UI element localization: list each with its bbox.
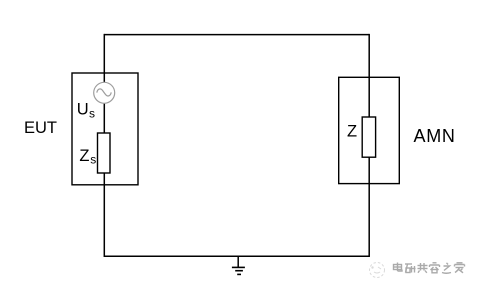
svg-text:Z: Z [347,123,357,141]
AMN box [339,77,400,183]
impedance Z (rectangle) [362,117,375,157]
glyph 容 [430,263,440,273]
svg-text:s: s [89,106,95,120]
label Us (value of source) [77,101,95,121]
wire left vertical (through EUT) [103,34,105,257]
wire right vertical (through AMN) [368,34,370,257]
glyph 之 [442,263,451,273]
impedance Zs (rectangle) [98,133,111,173]
watermark logo (faint circle emblem) [370,263,385,278]
label Zs (value of impedance) [79,147,96,167]
EUT box [72,73,138,185]
ground [232,256,245,274]
AC source Us (circle with sine) [94,82,115,103]
glyph 兼 [418,263,428,273]
glyph 家 [455,263,465,273]
svg-text:Z: Z [79,147,89,165]
svg-text:AMN: AMN [414,126,456,146]
watermark text 电磁兼容之家 (pseudo-glyph strokes) [394,263,465,274]
wire bottom (ground net) [104,255,369,257]
wire top (node between EUT and AMN) [104,34,369,36]
svg-text:U: U [77,101,89,119]
svg-text:EUT: EUT [24,119,57,137]
glyph 电 [394,263,403,272]
svg-text:s: s [90,153,96,167]
glyph 磁 [405,264,416,273]
